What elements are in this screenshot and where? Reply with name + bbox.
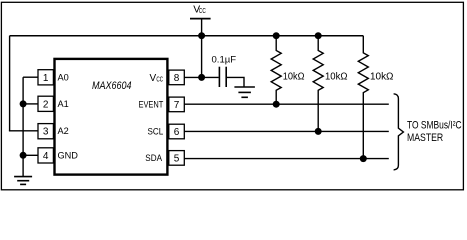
wire: capacitor to ground — [226, 77, 244, 86]
wire: to pin 3 (A2) — [9, 130, 38, 132]
svg-text:7: 7 — [174, 100, 180, 111]
svg-text:A1: A1 — [58, 99, 69, 109]
svg-text:SCL: SCL — [148, 127, 164, 137]
wire: to pin 4 (GND) — [23, 154, 38, 156]
wire: SDA line — [184, 158, 388, 160]
svg-text:2: 2 — [43, 99, 49, 110]
ground symbol (capacitor) — [234, 87, 255, 97]
svg-text:1: 1 — [43, 73, 49, 84]
junction: R1 x EVENT — [273, 101, 280, 108]
wire: VCC drop to pin-8 node — [201, 19, 203, 78]
pin 5 (SDA) — [145, 151, 184, 166]
svg-text:10kΩ: 10kΩ — [370, 72, 394, 83]
svg-text:0.1µF: 0.1µF — [212, 54, 237, 64]
resistor R2 10k (SCL pull-up) — [313, 36, 348, 132]
svg-text:10kΩ: 10kΩ — [325, 72, 348, 83]
brace to SMBus master — [394, 94, 404, 170]
svg-text:CC: CC — [156, 75, 163, 84]
junction: ground bus x pin 4 — [20, 152, 27, 159]
svg-text:MAX6604: MAX6604 — [92, 80, 132, 92]
pin 6 (SCL) — [148, 124, 185, 139]
wire: EVENT line — [184, 103, 388, 105]
junction: R3 x SDA — [360, 155, 367, 162]
svg-text:A2: A2 — [58, 126, 69, 136]
wire: to pin 2 (A1) — [23, 103, 38, 105]
resistor R1 10k (EVENT pull-up) — [271, 36, 305, 105]
wire: top VCC rail — [10, 35, 364, 37]
wire: SCL line — [184, 130, 388, 132]
pin 4 (GND) — [38, 148, 78, 163]
svg-text:EVENT: EVENT — [139, 100, 164, 110]
pin 2 (A1) — [38, 96, 69, 111]
pin 7 (EVENT) — [139, 97, 185, 112]
svg-text:5: 5 — [174, 153, 180, 164]
resistor R3 10k (SDA pull-up) — [358, 36, 394, 159]
junction: ground bus x pin 2 — [20, 100, 27, 107]
junction: rail x VCC drop — [198, 32, 205, 39]
svg-text:SDA: SDA — [145, 153, 162, 163]
svg-text:8: 8 — [174, 73, 180, 84]
svg-text:10kΩ: 10kΩ — [283, 72, 305, 83]
junction: R2 x SCL — [315, 128, 322, 135]
wire: pin 8 to capacitor — [184, 76, 218, 78]
capacitor C1 0.1uF — [212, 54, 237, 87]
svg-text:GND: GND — [58, 151, 79, 161]
junction: rail x R1 — [273, 32, 280, 39]
svg-text:6: 6 — [174, 127, 180, 138]
VCC supply symbol — [190, 5, 211, 19]
svg-text:MASTER: MASTER — [407, 132, 443, 144]
junction: rail x R2 — [315, 32, 322, 39]
IC U1 MAX6604 — [55, 59, 168, 175]
svg-text:TO SMBus/I²C: TO SMBus/I²C — [407, 120, 462, 132]
svg-text:4: 4 — [43, 151, 49, 162]
svg-text:A0: A0 — [58, 73, 69, 83]
wire: to pin 1 (A0) — [23, 76, 38, 78]
pin 8 (VCC) — [150, 70, 185, 85]
label TO SMBus/I2C MASTER — [407, 120, 462, 144]
pin 1 (A0) — [38, 70, 69, 85]
pin 3 (A2) — [38, 124, 69, 139]
wire: left vertical rail to A2 — [9, 36, 11, 131]
junction: pin-8 node — [198, 74, 205, 81]
ground symbol (left) — [14, 177, 32, 185]
svg-text:3: 3 — [43, 126, 49, 137]
wire: ground bus vertical — [22, 77, 24, 176]
svg-text:CC: CC — [199, 6, 206, 15]
